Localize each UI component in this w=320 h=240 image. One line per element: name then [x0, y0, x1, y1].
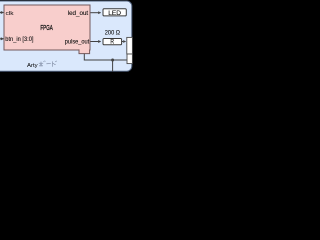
wire branch to ground: [112, 60, 114, 72]
pin header J1 pin 2 (gnd): [127, 54, 132, 64]
svg-text:led_out: led_out: [68, 10, 89, 17]
wire led_out to LED: [91, 12, 102, 14]
svg-text:btn_in [3:0]: btn_in [3:0]: [5, 37, 34, 43]
svg-text:clk: clk: [6, 10, 15, 16]
wire R to pin: [122, 40, 126, 42]
FPGA block U1: [4, 5, 90, 50]
svg-text:Arty: Arty: [27, 63, 38, 69]
FPGA gnd port stub: [79, 49, 90, 53]
svg-text:FPGA: FPGA: [40, 25, 52, 32]
LED block: [103, 9, 126, 16]
katakana do: [53, 61, 57, 67]
pin header J1 pin 1: [127, 37, 133, 54]
Arty board outline: [0, 1, 132, 71]
btn_in input arrow: [0, 38, 4, 41]
clk input arrow: [0, 11, 4, 14]
katakana long vowel mark: [46, 63, 50, 65]
svg-text:pulse_out: pulse_out: [65, 39, 90, 45]
svg-text:200 Ω: 200 Ω: [105, 30, 121, 36]
svg-text:R: R: [110, 39, 114, 46]
katakana bo: [39, 61, 46, 67]
svg-text:LED: LED: [108, 10, 121, 17]
junction dot: [111, 59, 114, 62]
wire gnd return path: [84, 54, 126, 60]
wire pulse_out to R: [91, 40, 102, 42]
resistor R block: [103, 39, 122, 45]
